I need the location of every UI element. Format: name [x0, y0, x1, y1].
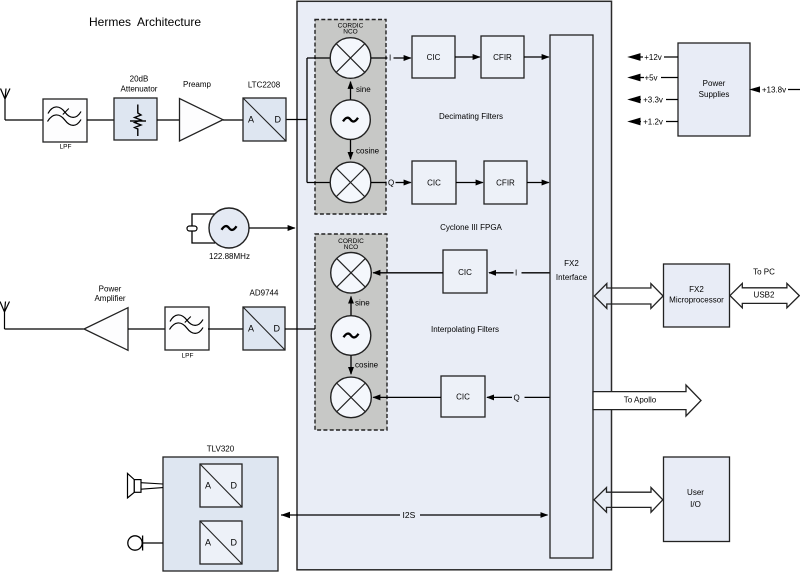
svg-text:Power: Power: [703, 79, 726, 88]
svg-text:NCO: NCO: [343, 29, 357, 36]
wire PA to antenna: [5, 328, 85, 330]
label AD9744: [250, 289, 279, 298]
svg-text:cosine: cosine: [355, 360, 379, 369]
mixer M3 interpolating I: [331, 252, 372, 293]
USB2 double arrow to PC: [730, 267, 799, 307]
wire junction I/Q split: [306, 58, 308, 183]
svg-text:D: D: [275, 115, 282, 125]
TX antenna: [0, 302, 10, 330]
svg-text:Q: Q: [388, 179, 394, 188]
wire FX2 interface to CIC4 with node Q: [487, 393, 550, 402]
label TLV320: [207, 445, 235, 454]
svg-text:D: D: [231, 538, 238, 548]
node Q decimating: [371, 179, 411, 188]
wire preamp to LTC2208: [223, 119, 243, 121]
svg-text:USB2: USB2: [754, 291, 775, 300]
svg-text:Decimating Filters: Decimating Filters: [439, 112, 503, 121]
svg-text:A: A: [248, 324, 254, 334]
svg-text:NCO: NCO: [344, 244, 358, 251]
wire to mixer M1: [307, 57, 331, 59]
svg-text:Interface: Interface: [556, 273, 588, 282]
wire attenuator to preamp: [157, 119, 179, 121]
svg-text:TLV320: TLV320: [207, 445, 235, 454]
wire CIC1 to CFIR1: [455, 56, 480, 58]
svg-text:LTC2208: LTC2208: [248, 80, 281, 89]
svg-text:FX2: FX2: [564, 259, 579, 268]
CIC 1 box: [412, 36, 455, 78]
power amplifier triangle: [84, 285, 128, 351]
svg-text:CIC: CIC: [427, 53, 441, 62]
svg-text:A: A: [205, 481, 211, 491]
svg-text:CIC: CIC: [458, 268, 472, 277]
label LTC2208: [248, 80, 281, 89]
wire CFIR1 to FX2 interface: [524, 56, 549, 58]
svg-text:A: A: [205, 538, 211, 548]
oscillator O1: [331, 100, 371, 140]
microphone symbol: [128, 536, 163, 551]
svg-text:+12v: +12v: [644, 53, 662, 62]
RX antenna: [1, 89, 11, 121]
supply arrow +1.2v: [629, 117, 678, 127]
svg-text:I: I: [389, 53, 391, 62]
svg-text:CFIR: CFIR: [493, 53, 512, 62]
svg-text:LPF: LPF: [60, 143, 72, 150]
CFIR 2 box: [484, 161, 527, 204]
supply arrow +12v: [629, 52, 678, 62]
attenuator box 20dB: [114, 74, 158, 140]
attenuator resistor symbol: [130, 105, 146, 137]
LPF 2 box: [165, 307, 209, 359]
I2S bus double arrow: [281, 508, 548, 521]
CFIR 1 box: [481, 36, 524, 78]
svg-text:CIC: CIC: [456, 392, 470, 401]
svg-text:Hermes Architecture: Hermes Architecture: [89, 15, 201, 29]
FX2 Interface box: [550, 35, 593, 558]
supply arrow +5v: [629, 73, 678, 83]
wire AD9744 to NCO2: [285, 328, 315, 330]
svg-text:FX2: FX2: [689, 285, 704, 294]
svg-text:To PC: To PC: [753, 267, 775, 276]
svg-text:Preamp: Preamp: [183, 80, 212, 89]
mixer M1 decimating I: [330, 38, 371, 79]
svg-text:CFIR: CFIR: [496, 178, 515, 187]
svg-text:D: D: [274, 324, 281, 334]
clock crystal loop: [187, 214, 215, 243]
svg-text:User: User: [687, 488, 704, 497]
TLV320 ADC 2: [200, 521, 242, 564]
wire ADC into FPGA: [286, 119, 307, 121]
wire CFIR2 to FX2 interface: [527, 182, 549, 184]
svg-text:Amplifier: Amplifier: [94, 294, 125, 303]
svg-text:Cyclone III FPGA: Cyclone III FPGA: [440, 223, 502, 232]
svg-text:I: I: [515, 269, 517, 278]
title Hermes Architecture: [89, 15, 201, 29]
TLV320 ADC 1: [200, 464, 242, 507]
svg-text:I2S: I2S: [403, 510, 416, 520]
supply arrow +3.3v: [629, 95, 678, 105]
CORDIC NCO 1 dashed box (decimating): [315, 20, 386, 215]
To Apollo arrow: [593, 385, 701, 416]
label Interpolating Filters: [431, 325, 499, 334]
svg-text:Q: Q: [514, 393, 520, 402]
supply input +13.8v: [751, 85, 800, 95]
CORDIC NCO 2 dashed box (interpolating): [315, 234, 387, 430]
cosine arrow O2 to M4: [351, 356, 379, 375]
svg-text:Power: Power: [99, 285, 122, 294]
svg-text:122.88MHz: 122.88MHz: [209, 252, 250, 261]
svg-text:To Apollo: To Apollo: [624, 396, 657, 405]
svg-text:Attenuator: Attenuator: [121, 84, 158, 93]
svg-text:D: D: [231, 481, 238, 491]
wire clock to FPGA: [249, 227, 295, 229]
wire CIC3 to M3: [373, 272, 443, 274]
wire FX2 interface to CIC3 with node I: [489, 269, 550, 278]
wire antenna to LPF1: [5, 119, 43, 121]
svg-text:Interpolating Filters: Interpolating Filters: [431, 325, 499, 334]
svg-text:sine: sine: [356, 85, 371, 94]
LPF 1 box: [43, 99, 87, 150]
svg-text:AD9744: AD9744: [250, 289, 279, 298]
wire LPF2 to PA: [128, 328, 165, 330]
speaker symbol: [128, 473, 164, 498]
svg-text:Supplies: Supplies: [699, 90, 730, 99]
svg-text:Microprocessor: Microprocessor: [669, 295, 724, 304]
svg-text:cosine: cosine: [356, 146, 380, 155]
sine arrow O2 to M3: [351, 297, 370, 316]
svg-text:sine: sine: [355, 298, 370, 307]
Power Supplies box: [678, 43, 750, 136]
svg-text:+1.2v: +1.2v: [643, 117, 663, 126]
svg-text:20dB: 20dB: [130, 74, 149, 83]
svg-text:+13.8v: +13.8v: [762, 85, 786, 94]
CIC 3 box: [443, 250, 487, 293]
LTC2208 ADC box: [243, 98, 286, 141]
AD9744 DAC box: [243, 307, 285, 350]
FX2 Microprocessor box: [664, 264, 730, 327]
label Decimating Filters: [439, 112, 503, 121]
mixer M2 decimating Q: [330, 162, 371, 203]
cosine arrow O1 to M2: [351, 140, 380, 159]
TLV320 codec box: [163, 457, 278, 571]
svg-text:A: A: [248, 115, 254, 125]
FPGA main box Cyclone III: [297, 1, 612, 570]
wire to mixer M2: [307, 182, 331, 184]
double arrow FX2 interface to FX2 microprocessor: [594, 284, 663, 309]
wire AD9744 to LPF2: [208, 328, 243, 330]
clock oscillator 122.88MHz: [209, 208, 249, 248]
label Cyclone III FPGA: [440, 223, 502, 232]
CIC 4 box: [441, 376, 485, 417]
CIC 2 box: [412, 161, 456, 204]
wire LPF1 to attenuator: [87, 119, 114, 121]
svg-text:I/O: I/O: [690, 500, 701, 509]
sine arrow O1 to M1: [351, 82, 372, 100]
double arrow FPGA to User I/O: [594, 488, 663, 513]
oscillator O2: [331, 316, 371, 356]
svg-text:+5v: +5v: [644, 73, 657, 82]
svg-text:CIC: CIC: [427, 178, 441, 187]
svg-text:+3.3v: +3.3v: [643, 95, 663, 104]
wire CIC4 to M4: [373, 396, 441, 398]
preamp triangle: [180, 80, 224, 141]
svg-text:LPF: LPF: [182, 352, 194, 359]
mixer M4 interpolating Q: [331, 377, 372, 418]
User I/O box: [664, 457, 730, 542]
node I decimating: [371, 53, 411, 62]
wire CIC2 to CFIR2: [456, 182, 483, 184]
